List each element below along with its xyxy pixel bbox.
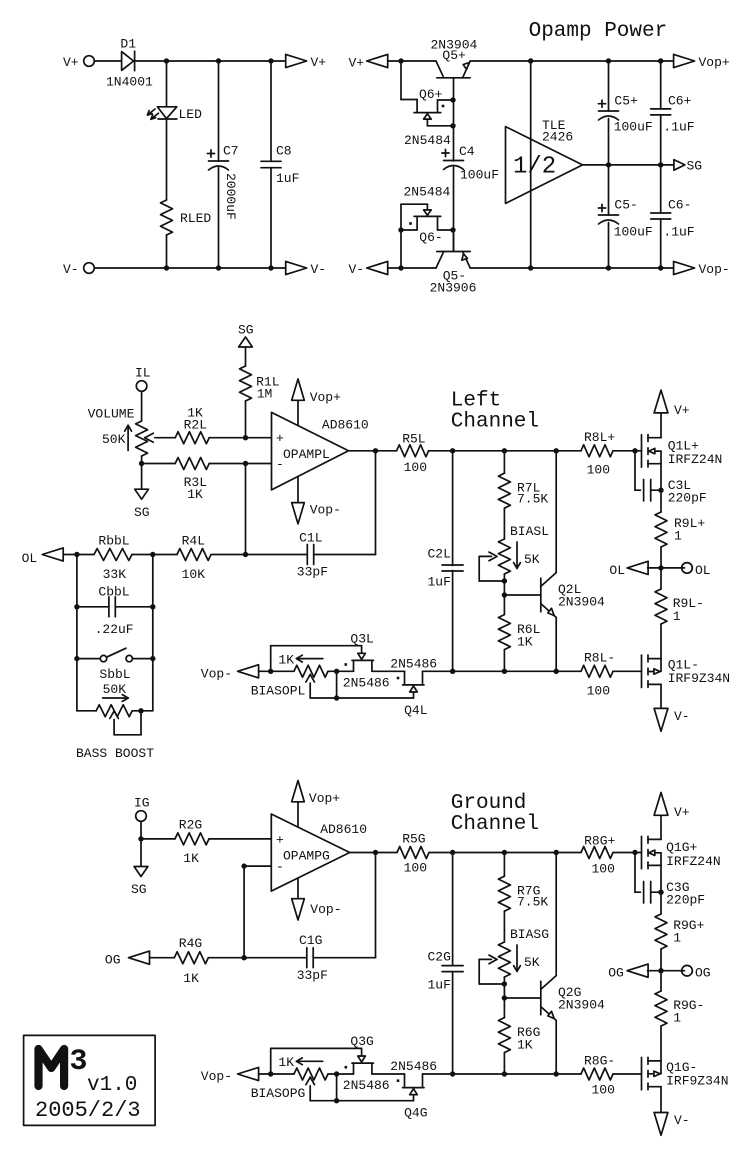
marker Q6+ (442, 105, 445, 108)
JFET Q3G 2N5486 (352, 1048, 373, 1074)
node junction (334, 669, 339, 674)
node junction (502, 592, 507, 597)
node junction (502, 981, 507, 986)
wire C3G branch (634, 853, 636, 893)
svg-text:1K: 1K (517, 1037, 533, 1052)
potentiometer VOLUME 50K (136, 421, 176, 456)
wire (660, 949, 662, 971)
svg-text:BIASOPG: BIASOPG (251, 1086, 306, 1101)
svg-text:1uF: 1uF (276, 171, 299, 186)
resistor R9L- (655, 589, 667, 624)
wire (218, 168, 220, 269)
svg-text:SG: SG (134, 505, 150, 520)
resistor R7G (498, 876, 510, 911)
wire (660, 684, 662, 708)
svg-text:1: 1 (673, 1011, 681, 1026)
wire (77, 554, 94, 556)
svg-text:100: 100 (587, 463, 610, 478)
potentiometer BIASG 5K (479, 942, 510, 984)
wire C1G riser (375, 853, 377, 958)
switch SbbL (77, 648, 153, 662)
wire V- rail (94, 267, 285, 269)
svg-text:OL: OL (695, 563, 711, 578)
svg-text:V-: V- (63, 262, 79, 277)
svg-text:Channel: Channel (451, 813, 539, 836)
wire Q2L emitter (555, 617, 557, 671)
resistor R8G- (581, 1068, 613, 1080)
wire (388, 267, 436, 269)
svg-text:RLED: RLED (180, 211, 211, 226)
svg-text:D1: D1 (120, 37, 136, 52)
resistor R1L (240, 366, 252, 401)
wire (613, 1073, 642, 1075)
node junction (606, 162, 611, 167)
node junction (606, 265, 611, 270)
node junction (502, 578, 507, 583)
svg-text:V-: V- (674, 1113, 690, 1128)
MOSFET Q1G+ IRFZ24N (642, 836, 662, 869)
svg-text:AD8610: AD8610 (322, 418, 369, 433)
wire C1L riser (375, 451, 377, 555)
node junction (502, 1071, 507, 1076)
svg-text:OPAMPL: OPAMPL (283, 447, 330, 462)
node junction (241, 955, 246, 960)
wire (270, 168, 272, 268)
wire bottom rail (470, 267, 673, 269)
wire Vop- stub (297, 477, 299, 503)
wire (153, 554, 177, 556)
wire (660, 1087, 662, 1113)
wire (372, 670, 405, 672)
svg-text:2N5484: 2N5484 (404, 133, 451, 148)
wire (503, 911, 505, 942)
wire C2G riser (452, 853, 454, 966)
svg-text:Q3G: Q3G (350, 1034, 373, 1049)
wire (660, 568, 662, 589)
node junction (243, 461, 248, 466)
wire (208, 957, 244, 959)
svg-text:7.5K: 7.5K (517, 492, 548, 507)
svg-text:7.5K: 7.5K (517, 895, 548, 910)
wire (608, 119, 610, 165)
svg-text:IRF9Z34N: IRF9Z34N (666, 1074, 728, 1089)
wire output (349, 450, 397, 452)
wire (660, 413, 662, 438)
svg-text:1: 1 (674, 529, 682, 544)
polarity plus C4 (442, 152, 449, 154)
svg-text:V+: V+ (63, 55, 79, 70)
wire (503, 650, 505, 672)
node junction (334, 695, 339, 700)
wire (660, 865, 662, 914)
svg-text:SG: SG (238, 323, 254, 338)
potentiometer BIASOPG 1K (294, 1068, 337, 1101)
wire left rail down to Q6+ (400, 61, 402, 100)
wire (132, 554, 153, 556)
node junction (243, 435, 248, 440)
wire Q3L gate feed (270, 646, 272, 672)
svg-text:IL: IL (135, 366, 151, 381)
wire (660, 1026, 662, 1061)
svg-text:.1uF: .1uF (663, 120, 694, 135)
svg-text:Q5+: Q5+ (442, 48, 466, 63)
svg-text:1K: 1K (278, 652, 294, 667)
svg-text:C2G: C2G (428, 950, 451, 965)
wire Q2L collector (555, 451, 557, 573)
wire (140, 839, 142, 867)
JFET Q6+ 2N5484 (414, 100, 453, 126)
svg-text:v1.0: v1.0 (87, 1074, 137, 1097)
JFET Q4L 2N5486 (403, 671, 424, 698)
node junction (164, 58, 169, 63)
svg-text:33K: 33K (103, 567, 127, 582)
svg-text:V-: V- (674, 709, 690, 724)
svg-text:2426: 2426 (542, 130, 573, 145)
node junction (216, 58, 221, 63)
wire C3L branch (634, 451, 636, 490)
node junction (74, 604, 79, 609)
node junction (606, 58, 611, 63)
wire (660, 165, 662, 213)
svg-text:RbbL: RbbL (98, 533, 129, 548)
node junction (268, 58, 273, 63)
svg-text:1K: 1K (278, 1055, 294, 1070)
svg-text:SG: SG (687, 158, 703, 173)
wire feedback (245, 464, 247, 555)
svg-text:5K: 5K (524, 552, 540, 567)
node junction (554, 1071, 559, 1076)
svg-text:R2L: R2L (184, 417, 207, 432)
wire (141, 456, 143, 464)
wire (142, 463, 176, 465)
svg-text:R4G: R4G (179, 936, 202, 951)
node junction (398, 227, 403, 232)
resistor R6G (498, 1018, 510, 1053)
node junction (528, 58, 533, 63)
svg-text:SbbL: SbbL (99, 667, 130, 682)
svg-text:Q4L: Q4L (404, 703, 427, 718)
port arrow SG (674, 160, 685, 171)
svg-text:100uF: 100uF (614, 224, 653, 239)
wire (660, 115, 662, 165)
svg-text:Vop+: Vop+ (310, 390, 341, 405)
svg-text:2005/2/3: 2005/2/3 (35, 1098, 141, 1123)
wire Q2G base (504, 997, 540, 999)
port arrow SG (135, 489, 149, 499)
wire (429, 852, 581, 854)
svg-text:R5G: R5G (402, 831, 425, 846)
node junction (74, 552, 79, 557)
node junction (139, 461, 144, 466)
wire (423, 1073, 582, 1075)
resistor R5G (397, 847, 429, 859)
wire (115, 606, 153, 608)
wire (453, 100, 455, 161)
node junction (243, 552, 248, 557)
wire output G (350, 852, 397, 854)
svg-text:C5+: C5+ (614, 94, 638, 109)
wire bass left rail (76, 555, 78, 711)
svg-text:C1G: C1G (299, 933, 322, 948)
node junction (268, 265, 273, 270)
svg-text:.1uF: .1uF (663, 224, 694, 239)
MOSFET Q1L+ IRFZ24N (642, 435, 662, 468)
node junction (658, 265, 663, 270)
node junction (334, 1071, 339, 1076)
wire (608, 61, 610, 111)
node junction OG (658, 968, 663, 973)
wire (608, 223, 610, 269)
svg-text:2N5486: 2N5486 (343, 1078, 390, 1093)
transistor Q5+ 2N3904 (436, 61, 470, 100)
svg-text:Opamp Power: Opamp Power (529, 20, 668, 43)
node junction (450, 1071, 455, 1076)
wire (209, 463, 271, 465)
wire R7L riser (503, 451, 505, 473)
wire (328, 1073, 354, 1075)
capacitor C4 (444, 160, 464, 162)
terminal OG (682, 965, 693, 976)
svg-text:OL: OL (609, 563, 625, 578)
wire (94, 60, 121, 62)
capacitor C2L (442, 564, 463, 566)
port arrow SG below IG (134, 867, 148, 877)
wire (372, 1073, 405, 1075)
svg-text:Vop-: Vop- (201, 667, 232, 682)
wire (651, 891, 661, 893)
svg-text:1N4001: 1N4001 (106, 75, 153, 90)
port arrow V+ above Q1L+ (654, 390, 668, 413)
wire (613, 670, 642, 672)
wire (660, 547, 662, 568)
pot direction arrow BIASOPG (296, 1058, 322, 1065)
svg-text:IRFZ24N: IRFZ24N (668, 452, 723, 467)
node junction (138, 836, 143, 841)
node junction (398, 265, 403, 270)
wire V+ rail (135, 60, 286, 62)
wire (503, 1053, 505, 1074)
wire C2L riser (452, 451, 454, 566)
wire (608, 165, 610, 215)
wire (648, 970, 662, 972)
pot direction arrow (125, 425, 132, 450)
svg-text:OG: OG (105, 953, 121, 968)
port arrow Vop+ G (292, 781, 305, 802)
wire Vop+ stub (297, 400, 299, 425)
svg-text:C5-: C5- (614, 198, 637, 213)
node junction (502, 850, 507, 855)
wire C7 branch (218, 61, 220, 161)
wire (336, 1074, 338, 1101)
svg-text:OPAMPG: OPAMPG (283, 849, 330, 864)
wire (503, 574, 505, 615)
capacitor C2G (442, 965, 463, 967)
svg-text:2N5486: 2N5486 (390, 657, 437, 672)
resistor R9L+ (655, 512, 667, 547)
node junction (450, 448, 455, 453)
svg-text:Vop-: Vop- (310, 502, 341, 517)
wire (388, 60, 436, 62)
node junction gate Q1L+ (632, 448, 637, 453)
wire Q2L base (504, 594, 540, 596)
svg-text:+: + (276, 832, 284, 847)
node junction (74, 656, 79, 661)
resistor R6L (498, 615, 510, 650)
svg-text:Channel: Channel (451, 410, 539, 433)
svg-text:33pF: 33pF (297, 565, 328, 580)
wire (259, 670, 294, 672)
svg-text:R8G+: R8G+ (584, 833, 615, 848)
wire (245, 401, 247, 438)
svg-text:C4: C4 (459, 144, 475, 159)
node junction (450, 97, 455, 102)
svg-text:2000uF: 2000uF (223, 173, 238, 220)
svg-text:Q6-: Q6- (419, 230, 442, 245)
diode D1 (122, 51, 135, 71)
resistor RLED (161, 200, 173, 235)
svg-text:1K: 1K (183, 971, 199, 986)
wire input line (530, 61, 532, 268)
capacitor CbbL (108, 597, 110, 617)
resistor R8G+ (581, 847, 613, 859)
svg-text:33pF: 33pF (297, 968, 328, 983)
capacitor C5+ (599, 110, 619, 112)
svg-text:Vop+: Vop+ (699, 55, 730, 70)
wire (246, 554, 308, 556)
terminal OL (682, 563, 693, 574)
wire (613, 852, 642, 854)
transistor Q2L 2N3904 (541, 573, 556, 618)
wire (141, 391, 143, 421)
node junction (268, 1071, 273, 1076)
wire (212, 554, 246, 556)
capacitor C7 (209, 160, 229, 162)
wire (244, 865, 271, 867)
svg-text:50K: 50K (102, 432, 126, 447)
wire LED branch (166, 61, 168, 107)
svg-text:VOLUME: VOLUME (88, 407, 135, 422)
svg-text:C6-: C6- (668, 198, 691, 213)
node junction (150, 656, 155, 661)
node junction OL (658, 565, 663, 570)
node junction (658, 488, 663, 493)
polarity plus C5+ (598, 103, 605, 105)
pot direction arrow BIASG (514, 945, 521, 971)
svg-text:2N5484: 2N5484 (404, 185, 451, 200)
LED (148, 107, 177, 119)
wire (613, 450, 642, 452)
wire (314, 554, 376, 556)
svg-text:R2G: R2G (179, 818, 202, 833)
wire (660, 219, 662, 268)
svg-text:V+: V+ (674, 403, 690, 418)
resistor R8L- (581, 665, 613, 677)
svg-text:V-: V- (311, 262, 327, 277)
marker Q3L (345, 663, 348, 666)
svg-text:OG: OG (608, 966, 624, 981)
wire Q2G emitter (555, 1020, 557, 1074)
svg-text:3: 3 (70, 1045, 88, 1079)
wire (140, 821, 142, 839)
port arrow V+ above Q1G+ (654, 793, 668, 816)
capacitor C3L (643, 480, 645, 502)
marker Q4L (397, 677, 400, 680)
wire (259, 1073, 294, 1075)
wire Vop- stub (297, 878, 299, 899)
terminal V- input (84, 263, 95, 274)
wire (166, 235, 168, 268)
JFET Q4G 2N5486 (403, 1074, 424, 1101)
svg-text:BIASG: BIASG (510, 927, 549, 942)
port arrow Vop- (674, 261, 695, 274)
svg-text:10K: 10K (182, 567, 206, 582)
polarity plus C5- (598, 207, 605, 209)
transistor Q5- 2N3906 (436, 230, 470, 268)
wire (336, 671, 338, 698)
svg-text:Ground: Ground (451, 792, 527, 815)
wire emitter to rail (470, 60, 674, 62)
node junction (150, 604, 155, 609)
svg-text:Q4G: Q4G (404, 1106, 427, 1121)
node junction (450, 123, 455, 128)
svg-text:5K: 5K (524, 955, 540, 970)
capacitor C3G (643, 882, 645, 904)
svg-text:V-: V- (349, 262, 365, 277)
node junction (554, 669, 559, 674)
wire (271, 645, 362, 647)
svg-text:1uF: 1uF (428, 978, 451, 993)
svg-text:100: 100 (587, 684, 610, 699)
wire Q4G gate feed (337, 1100, 414, 1102)
node junction gate Q1G+ (632, 850, 637, 855)
node junction (398, 58, 403, 63)
wire (453, 167, 455, 252)
node junction (138, 708, 143, 713)
svg-text:OG: OG (695, 966, 711, 981)
svg-text:R8G-: R8G- (584, 1054, 615, 1069)
svg-text:C1L: C1L (299, 531, 322, 546)
wire (423, 670, 582, 672)
svg-text:SG: SG (131, 882, 147, 897)
capacitor C5- (599, 214, 619, 216)
svg-text:BASS BOOST: BASS BOOST (76, 746, 154, 761)
svg-text:220pF: 220pF (666, 893, 705, 908)
wire (244, 957, 307, 959)
svg-text:100uF: 100uF (460, 168, 499, 183)
wire Q4L gate feed (337, 697, 414, 699)
resistor R7L (498, 473, 510, 508)
wire CbbL row (77, 606, 109, 608)
capacitor C1L (306, 545, 308, 565)
svg-text:R8L+: R8L+ (584, 430, 615, 445)
M3 version box (24, 1035, 156, 1125)
svg-text:C7: C7 (223, 144, 239, 159)
svg-text:2N5486: 2N5486 (390, 1059, 437, 1074)
svg-text:Q6+: Q6+ (419, 87, 443, 102)
svg-text:1M: 1M (257, 387, 273, 402)
JFET Q6- 2N5484 (401, 204, 453, 268)
wire (141, 838, 175, 840)
node junction (373, 448, 378, 453)
wire (150, 957, 175, 959)
wire C8 branch (270, 61, 272, 161)
marker Q4G (397, 1079, 400, 1082)
wire (328, 670, 354, 672)
logo M3 (39, 1045, 88, 1086)
polarity plus C7 (207, 153, 214, 155)
svg-text:1: 1 (673, 931, 681, 946)
potentiometer BIASL 5K (479, 539, 510, 581)
